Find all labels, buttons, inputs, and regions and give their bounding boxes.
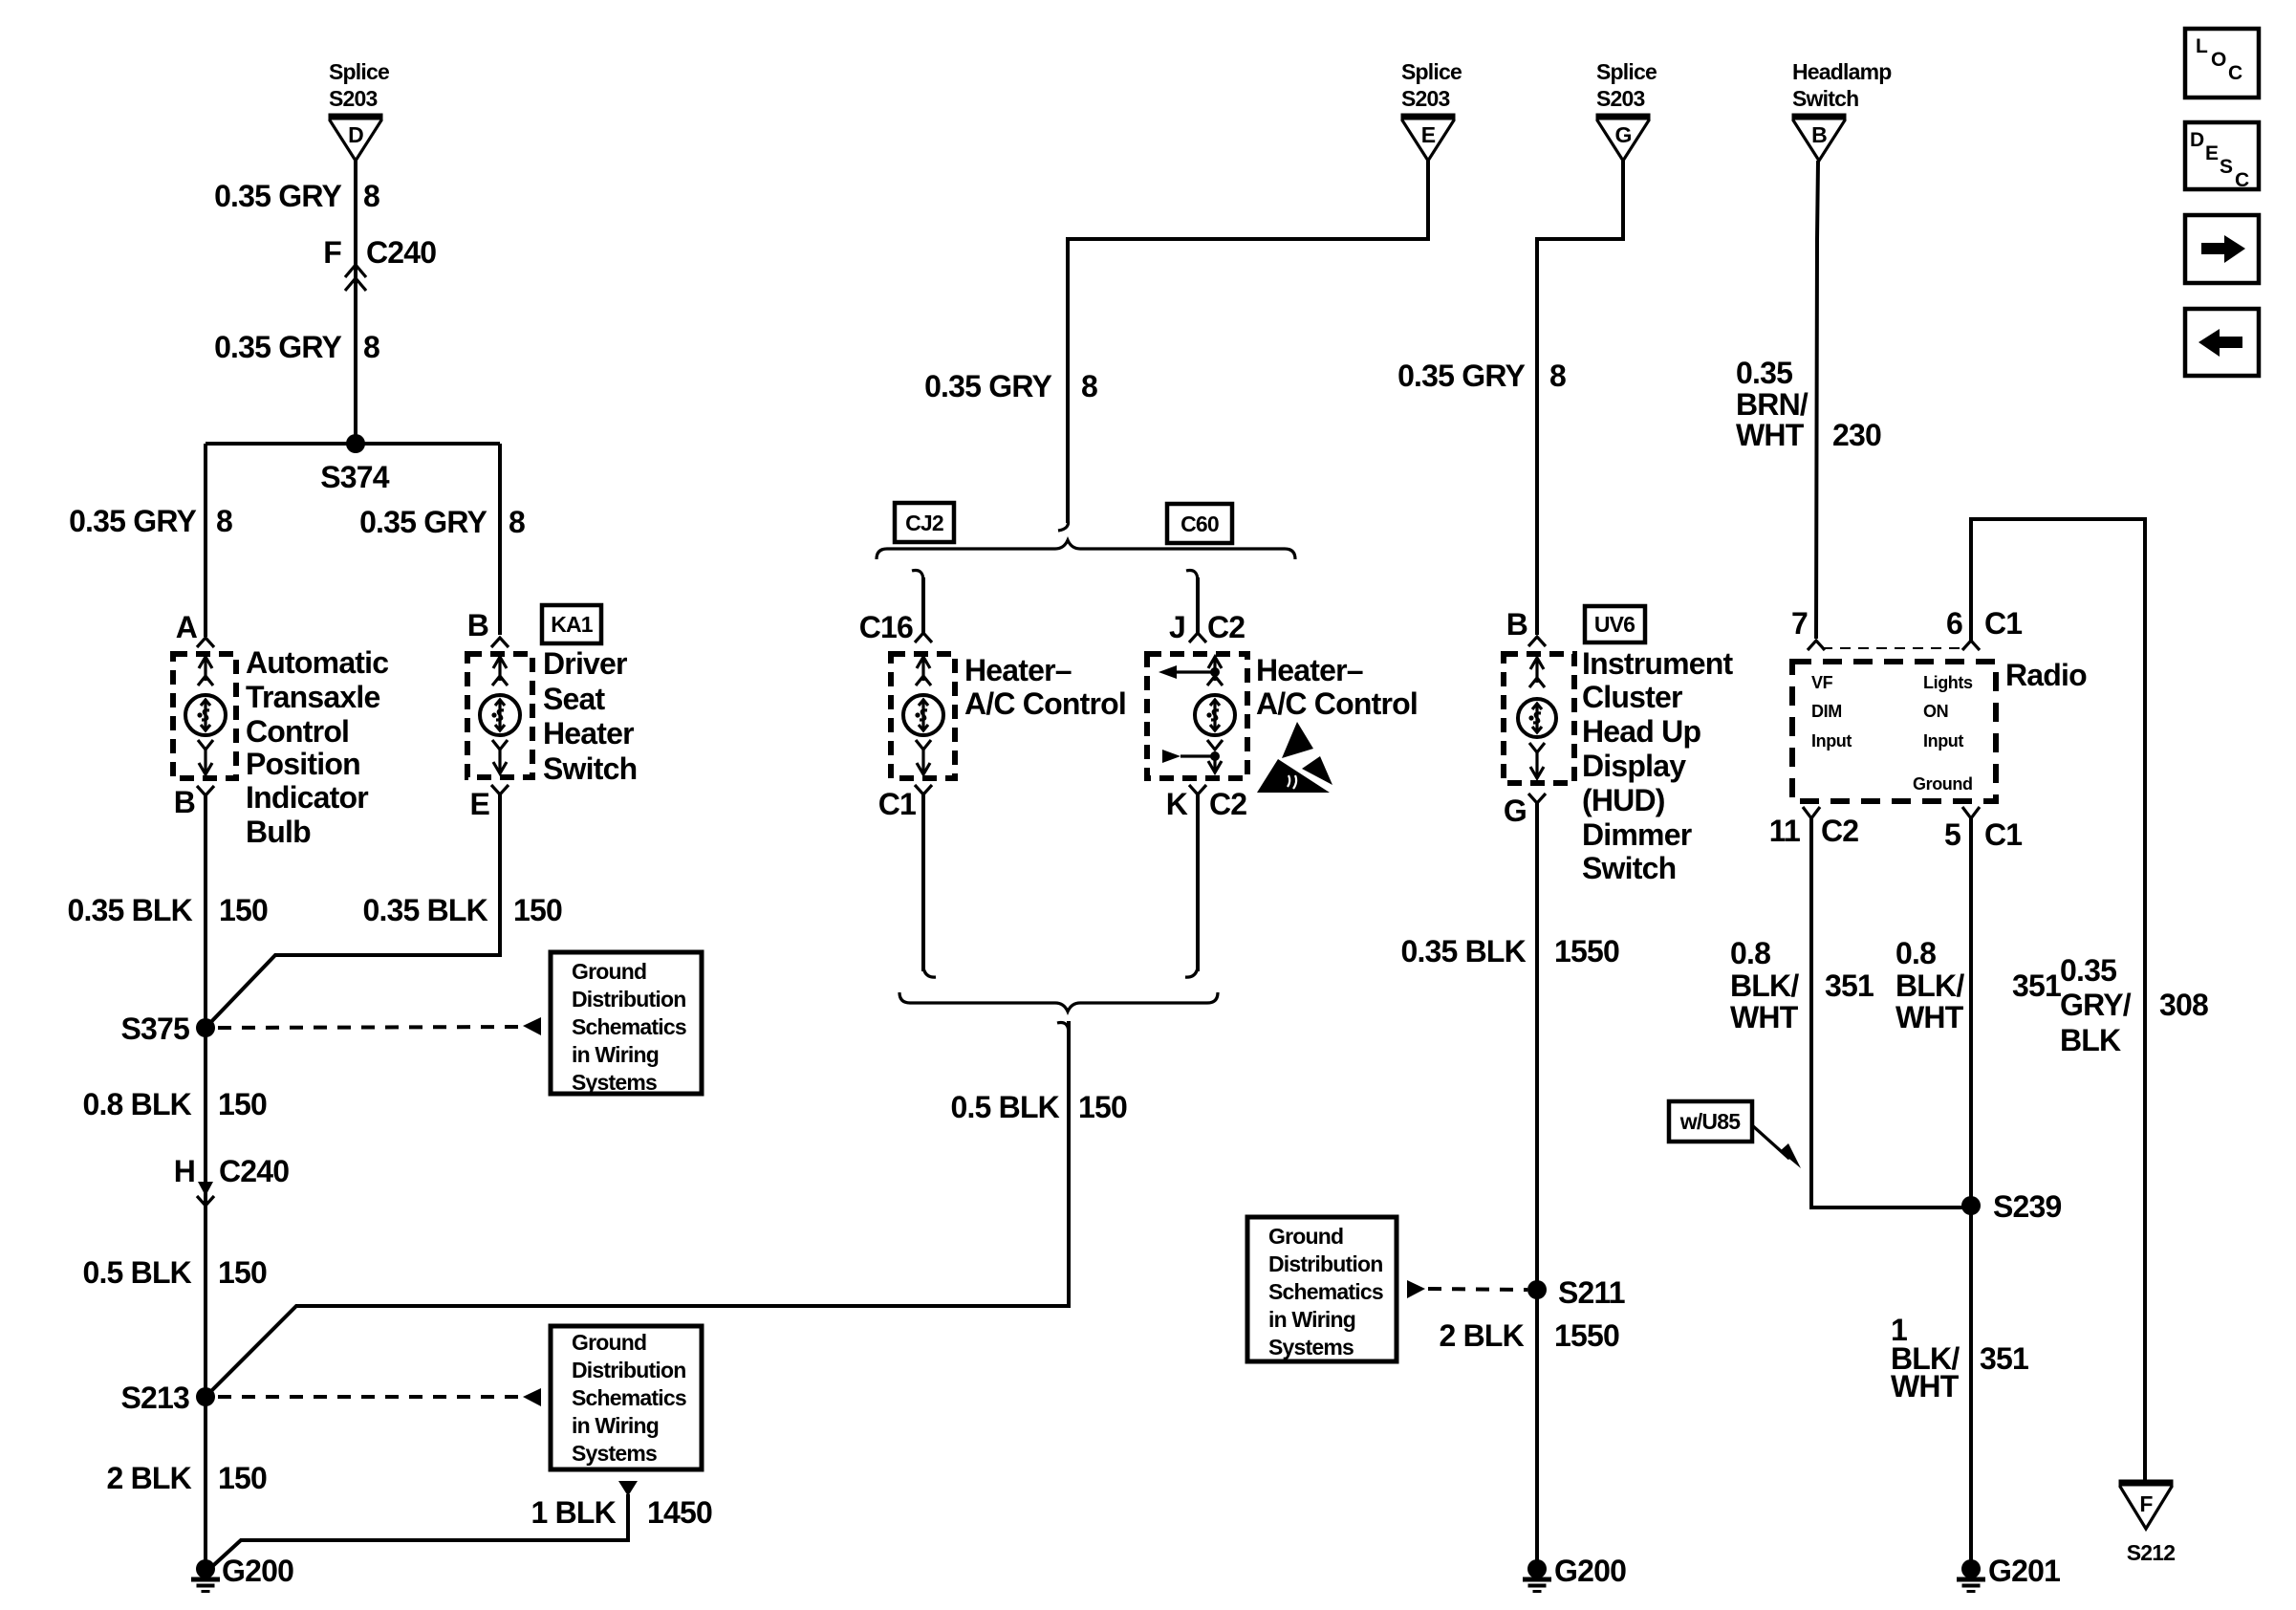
splice triangle E: [1401, 117, 1456, 161]
wire pin B down to S375: [204, 795, 207, 1028]
svg-text:E: E: [469, 787, 489, 821]
wire label 0.35 BRN/WHT 230: [1736, 356, 1881, 452]
svg-text:S203: S203: [329, 86, 378, 111]
nav box arrow right: [2185, 215, 2259, 283]
connector H C240 label: [174, 1154, 290, 1188]
svg-text:Ground: Ground: [1913, 774, 1973, 794]
wire label 0.35 GRY 8 (middle): [924, 369, 1097, 403]
svg-text:7: 7: [1791, 606, 1808, 641]
wire label 0.35 GRY 8 (lower): [214, 330, 379, 364]
svg-text:BLK/: BLK/: [1730, 968, 1799, 1003]
svg-text:230: 230: [1832, 418, 1881, 452]
svg-text:Input: Input: [1923, 731, 1963, 751]
svg-text:Distribution: Distribution: [1268, 1251, 1382, 1276]
svg-text:S211: S211: [1558, 1275, 1625, 1310]
radio pin 11 C2: [1769, 807, 1859, 848]
splice junction S213: [120, 1381, 215, 1415]
pin lead C16 (hook + wire): [859, 570, 932, 644]
svg-text:Systems: Systems: [572, 1070, 657, 1095]
svg-text:0.35: 0.35: [1736, 356, 1792, 390]
svg-text:Systems: Systems: [572, 1441, 657, 1466]
wire pin G to G200: [1535, 803, 1539, 1569]
wire label 0.35 BLK 150 (right): [362, 893, 562, 927]
svg-text:0.35 GRY: 0.35 GRY: [359, 505, 487, 539]
svg-text:C1: C1: [878, 787, 916, 821]
svg-text:Ground: Ground: [1268, 1224, 1343, 1249]
svg-text:GRY/: GRY/: [2060, 988, 2132, 1022]
svg-text:Indicator: Indicator: [246, 780, 368, 815]
svg-text:CJ2: CJ2: [905, 511, 943, 535]
svg-text:150: 150: [218, 1461, 267, 1495]
svg-text:G: G: [1504, 794, 1527, 828]
svg-text:0.35 BLK: 0.35 BLK: [1400, 934, 1526, 968]
svg-text:Position: Position: [246, 747, 360, 781]
svg-text:1 BLK: 1 BLK: [531, 1495, 617, 1530]
wire splice G to pin B of HUD dimmer: [1537, 161, 1623, 635]
note box: Ground Distribution Schematics in Wiring Systems (lower): [551, 1326, 702, 1469]
svg-text:B: B: [467, 608, 488, 642]
svg-text:G: G: [1614, 122, 1631, 147]
svg-text:6: 6: [1946, 606, 1962, 641]
svg-text:Dimmer: Dimmer: [1582, 817, 1692, 852]
wire label 0.35 GRY/BLK 308: [2060, 953, 2208, 1057]
svg-text:E: E: [1421, 122, 1436, 147]
svg-text:BRN/: BRN/: [1736, 387, 1809, 422]
pin B of bulb: [174, 785, 214, 819]
svg-text:Seat: Seat: [543, 682, 606, 716]
svg-text:Ground: Ground: [572, 1330, 646, 1355]
svg-text:S375: S375: [120, 1012, 189, 1046]
svg-text:1550: 1550: [1554, 934, 1619, 968]
connector code box C60: [1167, 504, 1232, 543]
splice triangle B (headlamp switch): [1792, 117, 1847, 161]
svg-text:E: E: [2205, 142, 2219, 164]
ground G200 (left): [191, 1554, 293, 1592]
option code box w/U85: [1669, 1101, 1801, 1168]
wire 1 BLK from note box to G200: [206, 1481, 638, 1572]
svg-text:WHT: WHT: [1891, 1369, 1960, 1403]
svg-text:2 BLK: 2 BLK: [107, 1461, 192, 1495]
ESD sensitivity symbol: [1257, 722, 1332, 793]
connector code box UV6: [1585, 606, 1645, 642]
svg-text:Driver: Driver: [543, 646, 627, 681]
svg-text:0.35 GRY: 0.35 GRY: [214, 179, 341, 213]
svg-text:WHT: WHT: [1895, 1000, 1964, 1034]
dashed reference line S375: [218, 1017, 541, 1035]
splice S203 label (G): [1596, 59, 1657, 111]
radio component dashed box: [1792, 662, 1996, 801]
svg-text:1550: 1550: [1554, 1318, 1619, 1353]
svg-text:8: 8: [509, 505, 525, 539]
svg-text:150: 150: [218, 1255, 267, 1290]
wire S375 to S213: [204, 1028, 207, 1397]
svg-text:S212: S212: [2127, 1540, 2176, 1565]
svg-text:Instrument: Instrument: [1582, 646, 1733, 681]
wire pin 5 down to G201: [1969, 818, 1973, 1569]
svg-text:in Wiring: in Wiring: [572, 1042, 659, 1067]
svg-text:0.35 BLK: 0.35 BLK: [67, 893, 192, 927]
splice triangle F (S212): [2119, 1483, 2176, 1565]
svg-text:Headlamp: Headlamp: [1792, 59, 1892, 84]
connector F C240 label: [323, 235, 436, 270]
svg-text:(HUD): (HUD): [1582, 783, 1665, 817]
svg-text:DIM: DIM: [1811, 702, 1842, 721]
svg-text:S213: S213: [120, 1381, 189, 1415]
wire S213 to G200: [204, 1397, 207, 1569]
radio pin 7: [1791, 606, 1825, 650]
svg-text:0.35: 0.35: [2060, 953, 2116, 988]
svg-text:Splice: Splice: [329, 59, 389, 84]
wire pin 11 down and right to S239: [1811, 818, 1971, 1207]
dashed reference line to S211: [1407, 1280, 1527, 1298]
lamp component: Heater-A/C Control (left): [891, 653, 1126, 778]
svg-text:Control: Control: [246, 714, 349, 749]
wire pin C1 down to underbrace: [923, 794, 936, 977]
svg-text:C2: C2: [1209, 787, 1246, 821]
wire pin E to S375: [206, 794, 500, 1028]
splice triangle G: [1596, 117, 1651, 161]
svg-text:Heater–: Heater–: [1256, 653, 1363, 687]
wire label 0.35 GRY 8 (right): [1397, 359, 1566, 393]
svg-text:H: H: [174, 1154, 195, 1188]
lamp component: Automatic Transaxle Control Position Indicator Bulb: [173, 645, 388, 849]
wire right branch down to pin B: [498, 444, 502, 635]
svg-text:C2: C2: [1821, 814, 1858, 848]
splice S203 label (D): [329, 59, 389, 111]
nav box arrow left: [2185, 309, 2259, 376]
svg-text:O: O: [2211, 49, 2226, 71]
svg-text:Automatic: Automatic: [246, 645, 388, 680]
svg-text:Cluster: Cluster: [1582, 680, 1682, 714]
svg-text:Transaxle: Transaxle: [246, 680, 379, 714]
svg-text:Switch: Switch: [1582, 851, 1676, 885]
svg-text:Head Up: Head Up: [1582, 714, 1700, 749]
svg-text:in Wiring: in Wiring: [1268, 1307, 1355, 1332]
wire label 0.35 GRY 8 (branch A): [69, 504, 232, 538]
connector C240 chevrons: [345, 265, 366, 291]
svg-text:C16: C16: [859, 610, 913, 644]
svg-text:351: 351: [1980, 1341, 2028, 1376]
svg-text:Lights: Lights: [1923, 673, 1973, 692]
pin G: [1504, 794, 1546, 828]
svg-text:0.35 GRY: 0.35 GRY: [214, 330, 341, 364]
svg-text:Bulb: Bulb: [246, 815, 311, 849]
svg-text:C: C: [2235, 169, 2249, 191]
splice S203 label (E): [1401, 59, 1462, 111]
svg-text:KA1: KA1: [551, 612, 594, 637]
connector code box KA1: [542, 605, 601, 643]
wire label 1 BLK/WHT 351: [1891, 1313, 2028, 1403]
svg-text:B: B: [174, 785, 195, 819]
underbrace connector bus: [899, 992, 1218, 1012]
svg-text:8: 8: [1081, 369, 1097, 403]
wire end hook (top of brace): [1058, 519, 1069, 531]
svg-text:5: 5: [1944, 817, 1960, 852]
svg-text:0.8 BLK: 0.8 BLK: [82, 1087, 191, 1121]
nav box LOC: [2185, 29, 2259, 98]
svg-text:Input: Input: [1811, 731, 1852, 751]
svg-text:B: B: [1811, 122, 1827, 147]
svg-text:8: 8: [216, 504, 232, 538]
svg-text:Schematics: Schematics: [572, 1385, 686, 1410]
ground G200 (middle): [1523, 1554, 1626, 1592]
splice junction S211: [1527, 1275, 1625, 1310]
wire left branch down to pin A: [204, 444, 207, 637]
pin C1: [878, 785, 932, 821]
splice junction S375: [120, 1012, 215, 1046]
svg-text:351: 351: [2012, 968, 2061, 1003]
svg-text:Splice: Splice: [1401, 59, 1462, 84]
svg-text:B: B: [1506, 607, 1527, 642]
wire label 0.5 BLK 150 (middle): [950, 1090, 1127, 1124]
svg-text:Schematics: Schematics: [572, 1014, 686, 1039]
svg-text:S374: S374: [320, 460, 390, 494]
pin K C2: [1166, 785, 1247, 821]
svg-text:0.35 GRY: 0.35 GRY: [69, 504, 196, 538]
wire label 0.8 BLK 150: [82, 1087, 267, 1121]
svg-text:A/C Control: A/C Control: [964, 686, 1126, 721]
svg-text:C240: C240: [219, 1154, 289, 1188]
wire label 0.35 GRY 8 (branch B): [359, 505, 525, 539]
note box: Ground Distribution Schematics in Wiring Systems (upper): [551, 952, 702, 1095]
svg-text:8: 8: [1549, 359, 1566, 393]
svg-text:Ground: Ground: [572, 959, 646, 984]
wire label 0.8 BLK/WHT 351 (second): [1895, 936, 2061, 1034]
svg-text:S203: S203: [1596, 86, 1645, 111]
svg-text:Splice: Splice: [1596, 59, 1657, 84]
svg-text:308: 308: [2159, 988, 2208, 1022]
wire label 0.8 BLK/WHT 351 (first): [1730, 936, 1874, 1034]
radio pin 5 C1: [1944, 807, 2022, 852]
splice junction S374: [320, 434, 390, 494]
svg-text:0.8: 0.8: [1895, 936, 1936, 970]
svg-text:A: A: [176, 610, 198, 644]
svg-text:Radio: Radio: [2005, 658, 2087, 692]
svg-text:WHT: WHT: [1730, 1000, 1799, 1034]
svg-text:BLK: BLK: [2060, 1023, 2121, 1057]
ground G201: [1957, 1554, 2060, 1592]
svg-text:0.8: 0.8: [1730, 936, 1770, 970]
svg-text:WHT: WHT: [1736, 418, 1805, 452]
svg-text:G200: G200: [1554, 1554, 1626, 1588]
wire headlamp switch to radio pin 7: [1816, 161, 1818, 639]
pin A: [176, 610, 214, 647]
svg-text:UV6: UV6: [1594, 612, 1635, 637]
wire label 0.35 GRY 8 (upper): [214, 179, 379, 213]
svg-text:D: D: [2190, 129, 2204, 151]
svg-text:J: J: [1169, 610, 1185, 644]
wire from underbrace down and left to S213: [206, 1021, 1069, 1397]
svg-text:0.35 GRY: 0.35 GRY: [924, 369, 1051, 403]
svg-text:w/U85: w/U85: [1679, 1109, 1741, 1134]
svg-text:C60: C60: [1180, 511, 1219, 536]
pin E: [469, 785, 509, 821]
svg-text:C: C: [2228, 62, 2242, 84]
svg-text:ON: ON: [1923, 702, 1948, 721]
connector C240 symbols: [197, 1182, 214, 1206]
svg-text:150: 150: [219, 893, 268, 927]
svg-text:A/C Control: A/C Control: [1256, 686, 1418, 721]
wire label 0.35 BLK 1550: [1400, 934, 1619, 968]
wire radio pin 6 up and over to 308 wire: [1971, 519, 2145, 1483]
splice triangle D: [329, 117, 383, 161]
wire label 0.5 BLK 150: [82, 1255, 267, 1290]
wire S374 horizontal bus: [206, 442, 500, 446]
svg-text:351: 351: [1825, 968, 1874, 1003]
pin B of HUD dimmer: [1506, 607, 1546, 646]
svg-text:Distribution: Distribution: [572, 1358, 685, 1382]
svg-text:0.5 BLK: 0.5 BLK: [950, 1090, 1059, 1124]
svg-text:1450: 1450: [647, 1495, 712, 1530]
wire splice D to S374: [354, 161, 357, 444]
thin dashed connector line pin7 to pin6: [1822, 647, 1965, 649]
overbrace connector bus: [877, 540, 1295, 559]
svg-text:2 BLK: 2 BLK: [1440, 1318, 1525, 1353]
pin B (KA1 switch): [467, 608, 509, 647]
svg-text:BLK/: BLK/: [1895, 968, 1964, 1003]
lamp component: Instrument Cluster Head Up Display (HUD) Dimmer Switch: [1504, 646, 1733, 885]
wire label 0.35 BLK 150 (left): [67, 893, 268, 927]
note box: Ground Distribution Schematics in Wiring Systems (middle): [1247, 1217, 1397, 1361]
svg-text:D: D: [348, 122, 363, 147]
svg-text:S: S: [2220, 156, 2233, 178]
headlamp switch label: [1792, 59, 1892, 111]
svg-text:150: 150: [513, 893, 562, 927]
svg-text:L: L: [2196, 35, 2208, 57]
svg-text:F: F: [2139, 1491, 2153, 1516]
svg-text:G201: G201: [1988, 1554, 2060, 1588]
wire label 1 BLK 1450: [531, 1495, 712, 1530]
svg-text:C1: C1: [1984, 817, 2022, 852]
wire pin K down to underbrace: [1185, 794, 1198, 977]
svg-text:Systems: Systems: [1268, 1335, 1354, 1360]
svg-text:Switch: Switch: [543, 751, 637, 786]
nav box DESC: [2185, 122, 2259, 191]
svg-text:C1: C1: [1984, 606, 2022, 641]
svg-text:F: F: [323, 235, 341, 270]
svg-text:S239: S239: [1993, 1189, 2062, 1224]
svg-text:Switch: Switch: [1792, 86, 1858, 111]
svg-text:150: 150: [1078, 1090, 1127, 1124]
svg-text:C240: C240: [366, 235, 436, 270]
pin lead J C2 (hook + wire): [1169, 570, 1245, 644]
svg-text:C2: C2: [1207, 610, 1245, 644]
svg-text:in Wiring: in Wiring: [572, 1413, 659, 1438]
wire label 2 BLK 150: [107, 1461, 267, 1495]
svg-text:0.35 GRY: 0.35 GRY: [1397, 359, 1525, 393]
svg-text:VF: VF: [1811, 673, 1833, 692]
svg-text:8: 8: [363, 330, 379, 364]
svg-text:150: 150: [218, 1087, 267, 1121]
lamp component: Heater-A/C Control (right): [1147, 653, 1418, 778]
svg-text:0.35 BLK: 0.35 BLK: [362, 893, 487, 927]
dashed reference line S213: [218, 1388, 541, 1406]
svg-text:Display: Display: [1582, 749, 1686, 783]
wire splice E to connector bus: [1068, 161, 1428, 523]
radio pin 6 C1: [1946, 606, 2022, 650]
wire label 2 BLK 1550: [1440, 1318, 1619, 1353]
svg-text:K: K: [1166, 787, 1188, 821]
svg-text:Distribution: Distribution: [572, 987, 685, 1012]
connector code box CJ2: [895, 503, 954, 542]
splice junction S239: [1961, 1189, 2062, 1224]
svg-text:0.5 BLK: 0.5 BLK: [82, 1255, 191, 1290]
svg-text:Heater: Heater: [543, 716, 634, 751]
svg-text:S203: S203: [1401, 86, 1450, 111]
svg-text:G200: G200: [222, 1554, 293, 1588]
svg-text:Schematics: Schematics: [1268, 1279, 1383, 1304]
svg-text:11: 11: [1769, 814, 1800, 848]
svg-text:8: 8: [363, 179, 379, 213]
switch component: Driver Seat Heater Switch: [467, 646, 637, 786]
svg-text:Heater–: Heater–: [964, 653, 1072, 687]
